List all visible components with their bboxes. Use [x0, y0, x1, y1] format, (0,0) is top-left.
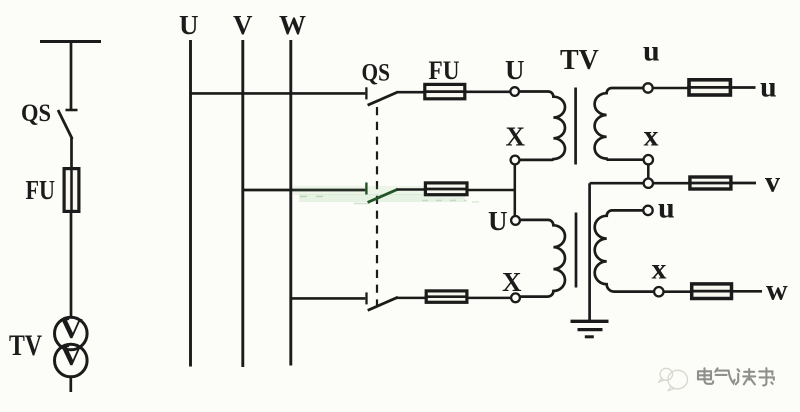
wire QS to FU (V-phase) [397, 188, 426, 191]
core (upper transformer) [574, 88, 577, 165]
terminal x (lower secondary) [654, 287, 663, 296]
ground symbol [571, 321, 609, 337]
fuse FU U-phase [423, 84, 466, 98]
svg-text:W: W [279, 10, 306, 40]
svg-text:TV: TV [560, 45, 599, 76]
watermark logo (chat bubbles) [659, 368, 688, 390]
label U (lower primary) [488, 206, 508, 236]
upper transformer primary winding [519, 91, 565, 159]
wire below TV [69, 376, 72, 392]
fuse FU (left diagram) [64, 169, 79, 212]
wire x to fuse (w) [664, 290, 691, 293]
lower transformer primary winding [520, 220, 565, 297]
label V (bus) [233, 10, 253, 40]
lower transformer secondary winding [595, 210, 654, 291]
fuse FU (secondary u) [687, 80, 732, 95]
svg-text:u: u [643, 35, 660, 68]
fuse FU V-phase [424, 183, 469, 195]
svg-text:QS: QS [21, 100, 51, 127]
label x (lower secondary terminal) [652, 253, 667, 286]
wire X to U (interphase link) [514, 165, 517, 216]
linkage (dashed) of QS [376, 107, 378, 306]
svg-text:x: x [652, 253, 667, 286]
terminal u (upper secondary) [643, 83, 652, 92]
bus W [289, 40, 292, 366]
svg-text:V: V [233, 10, 253, 40]
watermark text [698, 368, 774, 385]
svg-text:U: U [488, 206, 508, 236]
wire u to fuse [653, 87, 688, 90]
wire fuse to w output [733, 290, 762, 293]
svg-text:FU: FU [26, 175, 56, 205]
label X (lower primary) [502, 267, 522, 297]
bus U [189, 40, 192, 367]
wire FU to TV [70, 212, 73, 317]
wire V-phase tap [243, 189, 365, 192]
fuse FU (secondary w) [690, 284, 733, 299]
terminal X (upper transformer primary) [511, 156, 520, 165]
label w (output) [766, 274, 788, 307]
terminal X (lower transformer primary) [511, 293, 520, 302]
disconnector QS V-phase (with green scan tint) [293, 183, 479, 204]
disconnector QS (left diagram) [58, 110, 78, 139]
terminal U (upper transformer primary) [510, 87, 519, 96]
label u (output) [760, 71, 777, 104]
fuse FU (secondary v) [688, 177, 732, 189]
wire FU to terminal X (W-phase) [469, 297, 512, 300]
label TV (left) [9, 329, 42, 362]
label QS (three-phase) [362, 58, 391, 87]
wire FU to node (V-phase) [469, 189, 516, 192]
label FU (three-phase) [429, 56, 460, 85]
wire v node to earth lead [590, 182, 644, 185]
terminal U (lower transformer primary) [511, 216, 520, 225]
wire x to junction [647, 165, 650, 179]
voltage transformer TV (left diagram, two circles) [55, 313, 88, 377]
svg-text:u: u [760, 71, 777, 104]
svg-text:u: u [658, 192, 675, 225]
bus V [241, 40, 244, 367]
wire W-phase tap [291, 297, 366, 300]
label x (upper secondary terminal) [644, 120, 659, 153]
label X (upper primary) [506, 122, 526, 152]
svg-text:w: w [766, 274, 788, 307]
svg-text:v: v [765, 166, 780, 199]
svg-text:QS: QS [362, 58, 391, 87]
upper transformer secondary winding [595, 88, 644, 160]
svg-text:X: X [506, 122, 526, 152]
earth lead wire [588, 183, 591, 320]
wire QS to FU [70, 138, 73, 168]
busbar (left single-line diagram) [40, 40, 101, 43]
wire busbar to QS [70, 42, 73, 110]
label U (bus) [179, 10, 199, 40]
disconnector QS U-phase [366, 87, 397, 105]
wire QS to FU (U-phase) [397, 91, 426, 94]
terminal u (lower secondary) [643, 206, 652, 215]
svg-text:V: V [60, 340, 83, 372]
wire U-phase tap [191, 92, 366, 95]
label TV (three-phase transformers) [560, 45, 599, 76]
svg-text:X: X [502, 267, 522, 297]
wire fuse to v output [733, 182, 757, 185]
label FU (left) [26, 175, 56, 205]
svg-text:U: U [505, 55, 525, 85]
label u (upper secondary terminal) [643, 35, 660, 68]
wire fuse to u output [732, 86, 756, 89]
wire v node to fuse [653, 182, 689, 185]
label v (output) [765, 166, 780, 199]
label u (lower secondary terminal) [658, 192, 675, 225]
wire FU to terminal U [465, 91, 510, 94]
core (lower transformer) [575, 213, 578, 288]
svg-text:FU: FU [429, 56, 460, 85]
fuse FU W-phase [425, 291, 469, 302]
svg-text:U: U [179, 10, 199, 40]
label U (upper primary) [505, 55, 525, 85]
wire QS to FU (W-phase) [397, 297, 426, 300]
label W (bus) [279, 10, 306, 40]
svg-text:x: x [644, 120, 659, 153]
junction terminal (v node) [644, 179, 653, 188]
terminal x (upper secondary) [644, 155, 653, 164]
svg-text:TV: TV [9, 329, 42, 362]
label QS (left) [21, 100, 51, 127]
disconnector QS W-phase [367, 292, 398, 310]
